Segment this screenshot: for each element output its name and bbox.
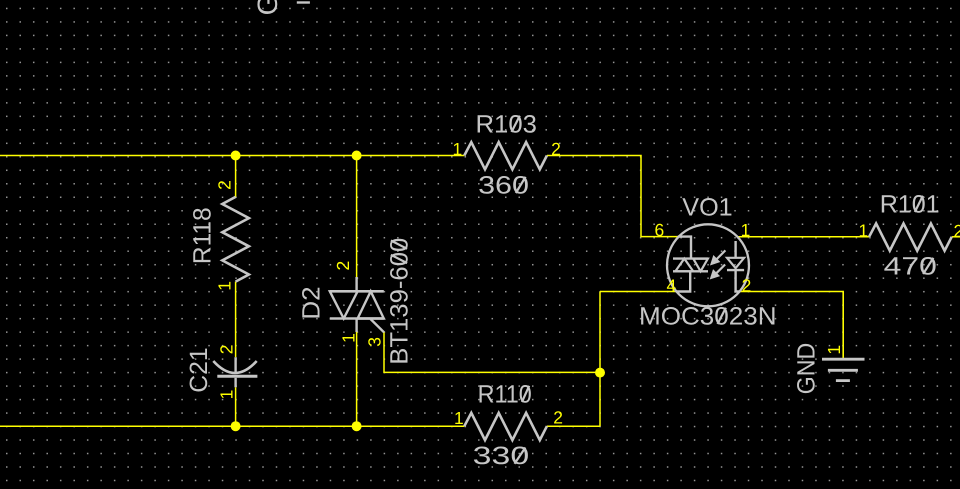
wire R118 top lead — [235, 156, 237, 197]
svg-text:MOC3023N: MOC3023N — [639, 303, 777, 331]
pin 2 R101 — [954, 221, 960, 241]
pin 1 R110 — [454, 408, 464, 428]
label VO1 value MOC3023N — [639, 303, 777, 331]
junction node top-R118 — [231, 151, 241, 161]
wire R118-C21 lead — [235, 282, 237, 358]
svg-text:R110: R110 — [478, 381, 532, 409]
svg-text:R103: R103 — [476, 111, 537, 139]
label D2 ref — [298, 286, 326, 319]
svg-text:4: 4 — [667, 275, 677, 295]
op-amp U1 body circle (optocoupler VO1) — [667, 224, 749, 306]
junction node bottom-D2 — [352, 421, 362, 431]
triac D2 top bar — [330, 290, 384, 293]
triac D2 right triangle — [358, 291, 384, 318]
capacitor C21 bottom stub — [234, 378, 236, 388]
label R103 ref — [476, 111, 537, 139]
svg-text:C21: C21 — [185, 347, 213, 392]
svg-text:6: 6 — [655, 220, 665, 240]
svg-text:BT139-600: BT139-600 — [386, 238, 414, 365]
pin 1 R101 — [859, 220, 869, 240]
triac D2 bottom stub — [355, 319, 357, 333]
pin 3 D2 — [365, 337, 385, 347]
opto VO1 light arrow 2 — [711, 265, 725, 279]
pin 1 VO1 — [741, 220, 751, 240]
label R118 ref — [189, 207, 217, 264]
label GND — [793, 343, 821, 394]
wire opto pin2 to gnd — [740, 292, 844, 358]
triac D2 bottom bar — [330, 317, 384, 320]
svg-text:R101: R101 — [880, 191, 940, 219]
wire opto pin1 to R101 — [738, 236, 869, 238]
wire node vertical — [599, 292, 601, 427]
svg-text:1: 1 — [453, 139, 463, 159]
pin 2 R118 — [215, 180, 235, 190]
svg-text:3: 3 — [365, 337, 385, 347]
resistor R118 — [222, 197, 249, 282]
opto VO1 led triangle — [727, 258, 744, 268]
opto VO1 light arrow 1 — [711, 250, 725, 264]
junction gate node — [595, 368, 605, 378]
svg-text:R118: R118 — [189, 207, 217, 264]
svg-text:1: 1 — [339, 333, 359, 343]
svg-text:1: 1 — [824, 345, 844, 355]
wire R110 pin2 — [547, 425, 600, 427]
label VO1 ref — [682, 194, 732, 222]
opto VO1 pin6 internal — [678, 237, 691, 259]
opto VO1 triac right triangle — [693, 259, 708, 272]
pin 1 C21 — [217, 390, 237, 400]
svg-text:2: 2 — [333, 261, 353, 271]
capacitor C21 flat plate — [217, 375, 257, 378]
capacitor C21 top stub — [234, 357, 236, 372]
svg-text:1: 1 — [215, 281, 235, 291]
svg-text:2: 2 — [217, 345, 237, 355]
svg-text:GND: GND — [793, 343, 821, 394]
opto VO1 triac bottom bar — [673, 270, 708, 272]
label R110 value 330 — [473, 442, 530, 470]
pin 1 R118 — [215, 281, 235, 291]
pin 6 VO1 — [655, 220, 665, 240]
svg-text:VO1: VO1 — [682, 194, 732, 222]
opto VO1 triac left triangle — [675, 259, 693, 272]
ground bar 2 — [828, 369, 858, 372]
pin 2 R110 — [553, 408, 563, 428]
pin 1 GND — [824, 345, 844, 355]
ground bar 3 — [836, 379, 850, 382]
junction node bottom-R118 — [231, 421, 241, 431]
pin 1 D2 — [339, 333, 359, 343]
label D2 value BT139-600 — [386, 238, 414, 365]
resistor R110 — [464, 413, 547, 440]
svg-text:2: 2 — [742, 275, 752, 295]
resistor R101 — [869, 224, 952, 251]
svg-text:1: 1 — [859, 220, 869, 240]
wire gnd vertical — [842, 292, 844, 358]
wire D2 gate to node — [384, 332, 600, 372]
svg-text:1: 1 — [217, 390, 237, 400]
wire D2 top lead — [356, 156, 358, 278]
triac D2 left triangle — [330, 291, 358, 318]
wire D2 bottom lead — [356, 332, 358, 426]
wire R101 pin2 stub — [952, 236, 960, 238]
svg-text:1: 1 — [454, 408, 464, 428]
capacitor C21 curved plate — [213, 361, 256, 373]
wire bottom net — [0, 425, 464, 427]
opto VO1 led cathode bar — [727, 269, 744, 271]
label R103 value 360 — [478, 172, 529, 200]
opto VO1 triac top bar — [673, 257, 708, 259]
label R110 ref — [478, 381, 532, 409]
wire opto pin4 to node — [600, 291, 677, 293]
triac D2 top stub — [355, 277, 357, 291]
label C21 ref — [185, 347, 213, 392]
pin 2 VO1 — [742, 275, 752, 295]
svg-text:2: 2 — [954, 221, 960, 241]
cropped label dash — [297, 1, 310, 3]
resistor R103 — [464, 142, 547, 169]
junction node top-D2 — [352, 151, 362, 161]
label R101 value 470 — [884, 253, 937, 281]
wire top net — [0, 155, 464, 157]
wire C21 bottom lead — [235, 387, 237, 426]
pin 4 VO1 — [667, 275, 677, 295]
svg-text:2: 2 — [551, 139, 561, 159]
pin 2 C21 — [217, 345, 237, 355]
opto VO1 led anode lead — [734, 241, 736, 258]
pin 2 D2 — [333, 261, 353, 271]
opto VO1 pin4 internal — [677, 271, 690, 291]
svg-text:2: 2 — [553, 408, 563, 428]
pin 1 R103 — [453, 139, 463, 159]
pin 2 R103 — [551, 139, 561, 159]
node G label (cropped) — [252, 0, 283, 15]
svg-text:G: G — [252, 0, 283, 15]
ground bar 1 — [822, 358, 865, 361]
label R101 ref — [880, 191, 940, 219]
triac D2 gate lead — [371, 319, 385, 332]
svg-text:D2: D2 — [298, 286, 326, 319]
opto VO1 led cathode lead — [736, 270, 740, 291]
svg-text:1: 1 — [741, 220, 751, 240]
wire R103 out to opto pin6 — [547, 156, 678, 237]
svg-text:2: 2 — [215, 180, 235, 190]
